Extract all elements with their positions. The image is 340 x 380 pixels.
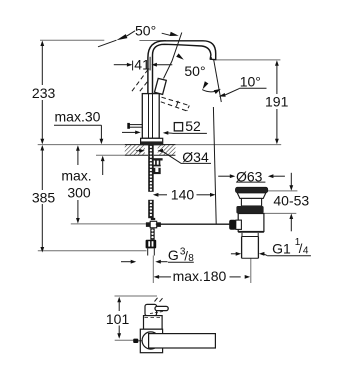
svg-text:4: 4 [303,246,309,257]
svg-text:40-53: 40-53 [273,192,309,208]
svg-text:max.180: max.180 [173,268,227,284]
svg-text:300: 300 [67,185,91,201]
svg-text:8: 8 [188,253,194,264]
svg-text:G: G [168,247,179,263]
svg-text:41: 41 [134,57,150,73]
svg-text:191: 191 [265,94,289,110]
svg-text:50°: 50° [184,63,205,79]
svg-text:Ø34: Ø34 [182,149,209,165]
svg-text:10°: 10° [240,74,261,90]
svg-text:max.: max. [61,167,91,183]
svg-text:140: 140 [171,186,195,202]
svg-text:G1: G1 [272,240,291,256]
svg-text:385: 385 [32,189,56,205]
svg-text:233: 233 [32,85,56,101]
svg-text:max.30: max.30 [55,109,101,125]
svg-text:52: 52 [185,118,201,134]
svg-text:Ø63: Ø63 [236,168,263,184]
svg-text:50°: 50° [135,22,156,38]
svg-text:101: 101 [106,311,130,327]
